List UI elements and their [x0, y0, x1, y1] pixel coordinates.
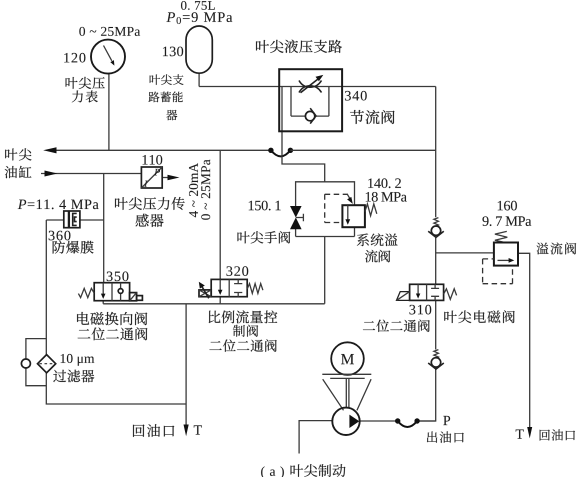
- label 叶尖压力表: [66, 77, 78, 89]
- wire: cylinder return line with right arrow: [41, 171, 141, 177]
- label 溢流阀 (right relief): [537, 243, 549, 255]
- burst disc 360: [64, 211, 80, 228]
- label 二位二通阀 (310): [363, 321, 375, 330]
- wire: return drop to tank port T with arrow: [184, 304, 189, 436]
- label 160 / 9.7MPa: [498, 201, 517, 211]
- wire: pump outlet line: [360, 420, 436, 422]
- label 叶尖手阀: [238, 231, 250, 243]
- wire: blade-tip cylinder supply line with left arrow: [43, 147, 271, 153]
- wire: right column segments: [417, 87, 436, 422]
- motor-pump coupling / bell housing: [322, 374, 371, 410]
- throttle valve 340: venturi arcs with adjustment arrow: [299, 75, 323, 93]
- wire: branch to relief valve 160: [436, 252, 494, 254]
- pressure sensor 110 (P/I transducer): [141, 167, 162, 188]
- wire: filter bypass loop: [26, 339, 46, 386]
- label 叶尖电磁阀: [444, 311, 456, 323]
- hand valve 150.1 (blade tip manual valve): [290, 206, 303, 229]
- proportional flow control valve 320 (2/2): [199, 279, 263, 298]
- label 防爆膜: [53, 241, 65, 254]
- label 0.75L: [181, 1, 215, 10]
- label 节流阀: [350, 110, 364, 124]
- label P 出油口: [443, 416, 450, 425]
- wire: feed to proportional valve 320: [219, 150, 221, 279]
- wire: feed to solenoid valve 350: [103, 174, 105, 283]
- throttle valve 340: bypass check ball branch: [291, 87, 329, 124]
- label 310: [409, 305, 431, 315]
- label 0~25MPa (gauge range): [79, 27, 140, 36]
- wire: top feed line from accumulator to right column: [199, 86, 436, 88]
- system relief valve 140.2: [342, 204, 376, 227]
- wire: sensor output arrow: [162, 175, 179, 181]
- label 320: [226, 266, 248, 276]
- label 叶尖支路蓄能器: [150, 74, 160, 84]
- wire: burst disc branch: [46, 219, 103, 221]
- wire: relief 160 outlet down to tank with arrow: [518, 253, 532, 438]
- electric motor M: [331, 342, 364, 375]
- wire: accumulator stem: [198, 73, 200, 87]
- pilot line (dashed) of 160: [483, 259, 513, 284]
- label 350: [107, 271, 129, 281]
- label 130: [163, 47, 183, 57]
- check valve (upper, right column): [428, 218, 444, 238]
- label P0=9MPa: [166, 12, 232, 24]
- label 比例流量控制阀: [209, 311, 221, 323]
- label 系统溢流阀: [357, 233, 369, 246]
- label 140.2 / 18MPa: [368, 178, 401, 188]
- relief valve 160: [494, 231, 518, 265]
- wire: return manifold under valves: [103, 237, 325, 304]
- filter bypass indicator circle: [21, 359, 30, 368]
- label 10μm 过滤器: [61, 354, 95, 366]
- label P=11.4MPa: [18, 200, 99, 210]
- throttle valve 340 outer enclosure: [279, 69, 342, 131]
- solenoid directional valve 350 (2/2): [78, 283, 142, 301]
- label 340: [345, 91, 367, 101]
- label 110: [143, 155, 163, 165]
- label 电磁换向阀 (350): [77, 312, 89, 325]
- hose joint (jump) on cylinder line: [268, 148, 293, 157]
- accumulator 130 (capsule): [186, 26, 212, 73]
- check valve (lower, right column): [428, 350, 444, 370]
- wire: gauge stem: [108, 74, 110, 151]
- pilot line (dashed) of 140.2: [325, 194, 353, 222]
- label 0~25MPa (rotated): [201, 159, 210, 219]
- label 叶尖油缸: [5, 148, 17, 160]
- hose joint (jump) on pump outlet: [395, 418, 420, 427]
- hydraulic pump: [332, 408, 359, 435]
- wire: throttle-valve riser down to relief block: [282, 87, 325, 182]
- caption (a) 叶尖制动: [261, 466, 284, 477]
- label 叶尖液压支路: [256, 40, 269, 53]
- relief block frame (hand valve 150.1 + system relief 140.2): [296, 182, 355, 237]
- pressure gauge 120 (blade tip pressure gauge): [91, 40, 125, 74]
- filter (10 micron) diamond: [38, 355, 56, 373]
- wire: cylinder line right part: [290, 149, 435, 151]
- wire: pump suction line: [299, 421, 332, 454]
- label 120: [64, 53, 85, 63]
- label 360: [49, 231, 71, 241]
- label 叶尖压力传感器: [115, 197, 128, 210]
- label 回油口 T (left): [133, 425, 144, 437]
- blade tip solenoid valve 310 (2/2): [397, 284, 457, 300]
- label T 回油口 (right): [516, 430, 524, 439]
- wire: left branch down to filter and bottom return: [46, 220, 186, 404]
- label 4~20mA (rotated): [189, 163, 198, 217]
- label 150.1: [249, 201, 281, 211]
